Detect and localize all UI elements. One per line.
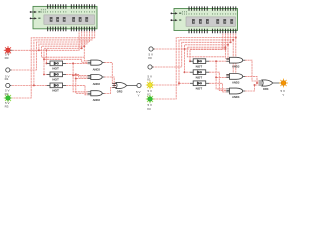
NOT gate U5 (47, 83, 66, 93)
wire net X0 extension right (185, 48, 226, 50)
AND3 gate U13 (226, 57, 245, 68)
AND3 gate U8 (88, 91, 105, 102)
wire v228 feed AND1 in2 (226, 45, 228, 60)
OR3 gate U16 (259, 80, 281, 91)
svg-text:Y: Y (282, 93, 284, 97)
wire AND3 out to OR (104, 88, 116, 94)
wire net R2 branch to NOT3 (34, 84, 47, 86)
U2 left pin 1 (171, 12, 178, 14)
wire v235.8 feed AND2 in2 (226, 38, 236, 76)
U2 bottom pins group B (212, 29, 235, 34)
svg-text:AND3: AND3 (93, 98, 101, 102)
AND3 gate U6 (88, 60, 105, 72)
wire staircase M6 (190, 33, 223, 61)
svg-text:OR3: OR3 (117, 89, 123, 93)
wire feed AND1 in2 (44, 59, 88, 62)
U2 inner pin-name marks (189, 13, 236, 15)
NOT gate U11 (190, 70, 209, 80)
probe R3 green lit (4, 94, 12, 109)
U1 bottom pins group A (48, 27, 66, 32)
wire net X2 branch NOT3 (179, 82, 190, 84)
wire staircase N6 (44, 31, 82, 74)
U1 switch squares (50, 17, 88, 22)
probe R2 off (5, 83, 12, 95)
wire v225.4 feed AND1 in1 (224, 47, 227, 58)
U1 pin1 name mark (38, 11, 40, 13)
U2 pin1 name mark (179, 13, 181, 15)
svg-text:AND3: AND3 (232, 81, 240, 85)
wire AND1r out to OR (245, 60, 259, 81)
svg-text:R1: R1 (5, 77, 9, 81)
probe Y2 orange lit (279, 79, 288, 97)
wire v216 branch AND2 in3 (216, 76, 226, 78)
wire v73 down to AND3 (73, 63, 88, 91)
wire AND1 out to OR (104, 63, 116, 84)
U2 pin2 name mark (179, 19, 181, 21)
wire staircase N5 (42, 31, 85, 57)
svg-text:X0: X0 (148, 56, 152, 60)
probe X2 yellow lit (146, 81, 154, 97)
U2 top-left speck row (182, 11, 186, 15)
U2 switch squares (192, 19, 233, 24)
U2 left pin 2 (171, 19, 178, 21)
wire net R1 staircase N3 (11, 31, 90, 70)
wire net R0 branch to NOT1 (46, 50, 49, 63)
AND3 gate U15 (226, 88, 245, 99)
probe X0 off (148, 47, 155, 60)
wire net X0 branch NOT2 (185, 49, 191, 72)
probe Y off (136, 83, 141, 97)
NOT gate U3 (47, 61, 66, 71)
wire net R0 staircase N4 (39, 31, 87, 50)
probe X3 green lit (146, 95, 154, 111)
wire net X2 staircase M2 (153, 33, 233, 85)
wire v233.2 feed AND2 in1 (226, 40, 233, 75)
AND3 gate U7 (88, 75, 105, 86)
svg-text:AND3: AND3 (93, 68, 101, 72)
U1 top pins group B (71, 4, 94, 8)
junction dots right (178, 37, 258, 87)
NOT gate U4 (47, 72, 66, 82)
wire AND2r out to OR (245, 76, 259, 83)
wire net R3 staircase N1 (12, 31, 95, 98)
wire NOT1r out to AND1 in3 (216, 60, 226, 62)
AND3 gate U14 (226, 74, 245, 85)
wire staircase M5 (187, 33, 225, 56)
wire NOT3 out (66, 85, 88, 94)
U1 top-left speck row (41, 9, 45, 13)
U1 top pins group A (48, 4, 66, 8)
svg-text:AND3: AND3 (93, 82, 101, 86)
svg-text:NOT: NOT (196, 75, 203, 79)
wire NOT2r out to AND3 in2 (209, 72, 226, 90)
svg-text:AND3: AND3 (232, 95, 240, 99)
wire v84.3 feed AND1 in1 (84, 46, 87, 61)
probe X1 off (147, 65, 154, 82)
wire net X3 staircase M1 (153, 33, 236, 99)
wire net R2 staircase N2 (11, 31, 92, 85)
wire AND2 out to OR (104, 77, 116, 86)
wire v73 branch AND2 in1 (73, 74, 88, 76)
wire v75.8 branch AND2 in3 (76, 78, 88, 80)
wire net R0 probe line (12, 31, 79, 50)
wire v75.8 down AND3 in2 (76, 74, 88, 93)
wire net X0 staircase M4 (154, 33, 229, 49)
U2 top pins group B (212, 6, 235, 10)
U1 bottom pins group B (71, 27, 94, 32)
U1 inner pin-name marks (48, 11, 95, 13)
svg-text:NOT: NOT (52, 89, 59, 93)
wire NOT3r out to AND3 in3 (209, 83, 226, 92)
svg-text:NOT: NOT (52, 67, 59, 71)
NOT gate U12 (190, 81, 209, 91)
junction dots left (33, 45, 115, 86)
wire NOT1r out to AND3 in1 (209, 61, 226, 89)
svg-text:NOT: NOT (52, 78, 59, 82)
NOT gate U10 (190, 59, 209, 69)
wire NOT1 out fanout (66, 62, 88, 64)
U1 left pin 2 (30, 17, 37, 19)
U2 bottom pins group A (189, 29, 207, 34)
OR3 gate U9 (112, 82, 137, 93)
IC U2 dip-switch body (174, 9, 238, 31)
wire net X1 staircase M3 (153, 33, 231, 67)
probe R0 red lit (4, 46, 13, 60)
U1 pin2 name mark (38, 18, 40, 20)
svg-text:OR3: OR3 (263, 87, 269, 91)
svg-text:X3: X3 (147, 107, 151, 111)
svg-text:R3: R3 (5, 105, 9, 109)
svg-text:NOT: NOT (196, 64, 203, 68)
wire AND3r out to OR (245, 85, 259, 91)
svg-text:AND3: AND3 (232, 65, 240, 69)
U1 left pin 1 (30, 11, 37, 13)
IC U1 dip-switch body (33, 6, 97, 28)
probe R1 off (5, 68, 12, 81)
U2 top pins group A (189, 6, 207, 10)
svg-text:NOT: NOT (196, 86, 203, 90)
wire NOT2 out (66, 74, 88, 77)
svg-text:R0: R0 (5, 56, 9, 60)
svg-text:Y: Y (138, 94, 140, 98)
